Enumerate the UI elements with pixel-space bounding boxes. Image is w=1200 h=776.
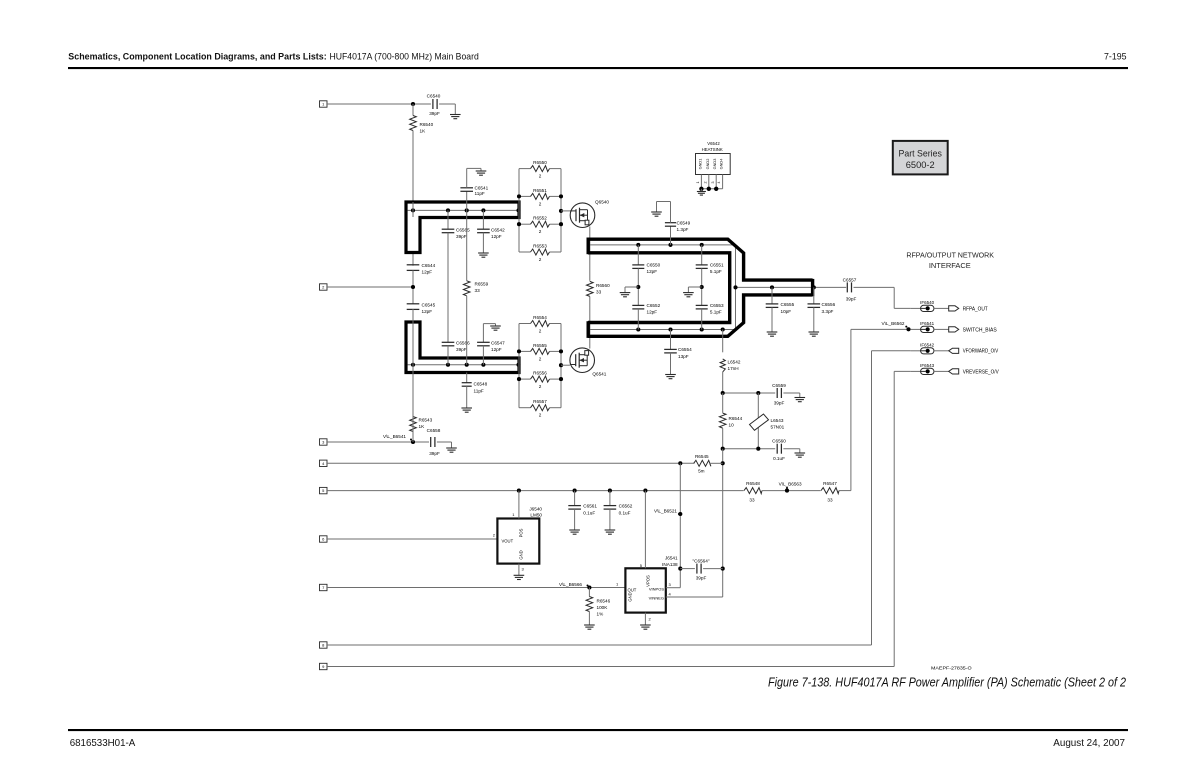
svg-text:GND: GND [628, 592, 633, 601]
svg-text:39pF: 39pF [429, 111, 440, 116]
svg-text:33: 33 [749, 498, 755, 503]
svg-text:1.3pF: 1.3pF [677, 227, 689, 232]
svg-text:33: 33 [475, 288, 481, 293]
svg-text:C6545: C6545 [422, 303, 436, 308]
svg-text:LM50: LM50 [530, 513, 542, 518]
svg-text:C6561: C6561 [583, 504, 597, 509]
svg-text:HEATSINK: HEATSINK [702, 147, 723, 152]
svg-text:4: 4 [717, 182, 721, 184]
svg-text:11pF: 11pF [475, 191, 485, 196]
svg-text:C6554: C6554 [678, 347, 692, 352]
svg-text:R6545: R6545 [695, 454, 709, 459]
svg-text:C6562: C6562 [619, 504, 633, 509]
svg-text:GND2: GND2 [705, 159, 710, 170]
svg-text:C6555: C6555 [781, 302, 795, 307]
svg-text:6500-2: 6500-2 [906, 160, 935, 170]
svg-text:12pF: 12pF [491, 347, 502, 352]
svg-text:2: 2 [649, 617, 652, 622]
svg-text:1: 1 [696, 182, 700, 184]
svg-text:HUF4017A (700-800 MHz) Main Bo: HUF4017A (700-800 MHz) Main Board [330, 51, 479, 61]
svg-text:2: 2 [539, 201, 542, 206]
svg-text:R6551: R6551 [533, 188, 547, 193]
svg-text:V\L_B6563: V\L_B6563 [779, 482, 802, 487]
svg-text:0.1uF: 0.1uF [583, 511, 595, 516]
svg-text:0.1uF: 0.1uF [619, 511, 631, 516]
svg-text:R6554: R6554 [533, 315, 547, 320]
svg-text:V\L_B6521: V\L_B6521 [654, 509, 677, 514]
svg-text:C6548: C6548 [474, 382, 488, 387]
svg-text:7-195: 7-195 [1104, 51, 1127, 61]
svg-text:L6542: L6542 [728, 360, 741, 365]
svg-text:12pF: 12pF [647, 310, 658, 315]
svg-text:C6556: C6556 [822, 302, 836, 307]
svg-text:GND1: GND1 [697, 159, 702, 170]
svg-text:10pF: 10pF [781, 309, 792, 314]
svg-text:GND4: GND4 [719, 158, 724, 170]
svg-text:August 24, 2007: August 24, 2007 [1053, 738, 1125, 749]
svg-text:C6550: C6550 [647, 263, 661, 268]
svg-text:11pF: 11pF [474, 388, 484, 393]
svg-text:"C6564": "C6564" [693, 559, 710, 564]
svg-text:1%: 1% [597, 612, 604, 617]
svg-text:VPOS: VPOS [646, 575, 651, 587]
svg-text:C6560: C6560 [772, 439, 786, 444]
svg-text:J6541: J6541 [665, 556, 678, 561]
svg-text:R6540: R6540 [420, 122, 434, 127]
svg-text:4: 4 [669, 592, 672, 597]
svg-text:C6551: C6551 [710, 263, 724, 268]
svg-text:2: 2 [539, 384, 542, 389]
svg-text:INA138: INA138 [662, 562, 678, 567]
svg-text:100K: 100K [597, 605, 609, 610]
svg-text:INTERFACE: INTERFACE [929, 261, 971, 270]
svg-text:GND: GND [519, 550, 524, 559]
svg-text:2: 2 [539, 329, 542, 334]
svg-text:0.1uF: 0.1uF [773, 456, 785, 461]
svg-text:3: 3 [522, 567, 525, 572]
svg-text:17nH: 17nH [728, 366, 739, 371]
svg-text:R6559: R6559 [475, 282, 489, 287]
svg-text:Q6540: Q6540 [595, 200, 609, 205]
svg-text:GND3: GND3 [712, 159, 717, 170]
svg-text:IF6541: IF6541 [920, 321, 935, 326]
svg-text:R6547: R6547 [823, 481, 837, 486]
svg-text:3: 3 [711, 182, 715, 184]
svg-text:10: 10 [729, 423, 735, 428]
svg-text:C6558: C6558 [427, 428, 441, 433]
svg-text:POS: POS [519, 528, 524, 537]
svg-text:6816533H01-A: 6816533H01-A [70, 738, 136, 749]
svg-text:Part Series: Part Series [899, 148, 943, 158]
svg-text:R6560: R6560 [596, 283, 610, 288]
svg-text:39pF: 39pF [456, 234, 467, 239]
svg-text:39pF: 39pF [774, 401, 785, 406]
svg-text:VINPOS: VINPOS [649, 587, 664, 592]
svg-text:C6553: C6553 [710, 303, 724, 308]
svg-text:1K: 1K [419, 424, 426, 429]
svg-text:3: 3 [669, 582, 672, 587]
svg-text:V\L_B6566: V\L_B6566 [559, 582, 582, 587]
svg-text:IF6542: IF6542 [920, 342, 935, 347]
svg-text:2: 2 [493, 533, 496, 538]
svg-text:C6549: C6549 [677, 221, 691, 226]
svg-text:39pF: 39pF [846, 297, 857, 302]
svg-text:C6547: C6547 [491, 341, 505, 346]
svg-text:RFPA/OUTPUT NETWORK: RFPA/OUTPUT NETWORK [906, 250, 994, 259]
svg-text:V\L_B6562: V\L_B6562 [882, 321, 905, 326]
svg-text:2: 2 [703, 182, 707, 184]
svg-text:C6565: C6565 [456, 228, 470, 233]
svg-text:Schematics, Component Location: Schematics, Component Location Diagrams,… [68, 51, 326, 61]
svg-text:1: 1 [512, 512, 515, 517]
svg-text:C6557: C6557 [843, 278, 857, 283]
svg-text:R6556: R6556 [533, 371, 547, 376]
svg-text:SWITCH_BIAS: SWITCH_BIAS [963, 327, 998, 333]
svg-text:Figure 7-138. HUF4017A RF Powe: Figure 7-138. HUF4017A RF Power Amplifie… [768, 675, 1126, 690]
svg-text:R6557: R6557 [533, 399, 547, 404]
svg-text:R6552: R6552 [533, 216, 547, 221]
svg-text:5m: 5m [698, 469, 705, 474]
svg-text:C6552: C6552 [647, 303, 661, 308]
svg-text:C6540: C6540 [427, 94, 441, 99]
svg-text:12pF: 12pF [647, 269, 658, 274]
svg-text:13pF: 13pF [678, 354, 689, 359]
svg-text:2: 2 [539, 356, 542, 361]
svg-text:R6546: R6546 [597, 599, 611, 604]
svg-text:VOUT: VOUT [502, 539, 514, 544]
svg-text:C6566: C6566 [456, 341, 470, 346]
svg-text:C6544: C6544 [422, 263, 436, 268]
svg-text:R6544: R6544 [729, 416, 743, 421]
svg-text:R6543: R6543 [419, 418, 433, 423]
svg-text:2: 2 [539, 257, 542, 262]
svg-text:57N01: 57N01 [771, 425, 785, 430]
svg-text:5.1pF: 5.1pF [710, 269, 722, 274]
svg-text:C6541: C6541 [475, 185, 489, 190]
svg-text:33: 33 [827, 498, 833, 503]
svg-text:C6559: C6559 [772, 383, 786, 388]
svg-text:2: 2 [539, 229, 542, 234]
svg-text:Q6541: Q6541 [592, 371, 606, 376]
svg-text:12pF: 12pF [422, 309, 433, 314]
svg-text:R6553: R6553 [533, 244, 547, 249]
svg-text:33: 33 [596, 290, 602, 295]
svg-text:IF6540: IF6540 [920, 300, 935, 305]
svg-text:L6543: L6543 [771, 418, 784, 423]
svg-text:2: 2 [539, 413, 542, 418]
svg-text:RFPA_OUT: RFPA_OUT [963, 306, 988, 312]
svg-text:V6542: V6542 [707, 141, 720, 146]
svg-text:R6548: R6548 [746, 481, 760, 486]
svg-text:2: 2 [539, 174, 542, 179]
svg-text:R6555: R6555 [533, 343, 547, 348]
svg-text:V\L_B6541: V\L_B6541 [383, 434, 406, 439]
svg-text:R6550: R6550 [533, 160, 547, 165]
svg-text:12pF: 12pF [491, 234, 502, 239]
svg-text:39pF: 39pF [696, 576, 707, 581]
svg-text:12pF: 12pF [422, 270, 433, 275]
svg-text:IF6543: IF6543 [920, 363, 935, 368]
svg-text:3.3pF: 3.3pF [822, 309, 834, 314]
svg-text:MAEPF-27835-O: MAEPF-27835-O [931, 666, 972, 671]
svg-text:VREVERSE_O/V: VREVERSE_O/V [963, 369, 1000, 375]
svg-text:39pF: 39pF [456, 347, 467, 352]
svg-text:C6542: C6542 [491, 228, 505, 233]
svg-text:OUT: OUT [628, 588, 637, 593]
svg-text:1: 1 [616, 582, 619, 587]
svg-text:5.1pF: 5.1pF [710, 310, 722, 315]
svg-text:1K: 1K [420, 128, 427, 133]
svg-text:39pF: 39pF [429, 451, 440, 456]
svg-text:J6540: J6540 [529, 507, 542, 512]
svg-text:VFORWARD_O/V: VFORWARD_O/V [963, 349, 999, 355]
svg-text:VINNEG: VINNEG [649, 596, 664, 601]
